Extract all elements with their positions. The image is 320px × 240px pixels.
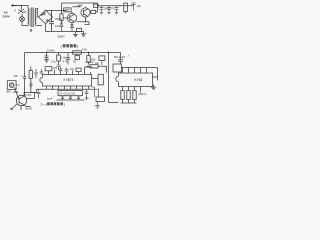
svg-text:10k: 10k (14, 74, 19, 78)
svg-text:3DG8: 3DG8 (25, 106, 32, 110)
wire (85, 66, 93, 68)
svg-text:10μ: 10μ (70, 68, 75, 71)
component box (75, 56, 80, 60)
svg-text:K: K (15, 9, 17, 13)
svg-text:0.47μ: 0.47μ (25, 94, 32, 97)
capacitor C14 (77, 96, 80, 100)
jack X1 (92, 87, 99, 97)
wire (153, 68, 158, 81)
svg-text:0.022μ: 0.022μ (86, 60, 94, 64)
label box C7-C10 (58, 91, 83, 96)
component box (99, 56, 105, 61)
svg-text:0.047μ: 0.047μ (47, 49, 55, 53)
svg-text:+6V: +6V (77, 3, 82, 7)
node (88, 52, 89, 53)
svg-text:220V: 220V (3, 15, 11, 19)
transformer B primary winding (28, 9, 29, 26)
wire bus (37, 88, 93, 90)
wire IC2 top rail (122, 67, 158, 69)
zener diode VD2 (71, 23, 74, 32)
capacitor C10 (65, 68, 69, 72)
wire (36, 25, 42, 27)
svg-text:): ) (64, 102, 65, 106)
label box 3DD (64, 8, 71, 12)
svg-text:BM: BM (7, 89, 11, 93)
wire (121, 100, 137, 104)
component box (113, 64, 122, 72)
ground (44, 60, 49, 62)
svg-text:3A: 3A (23, 11, 26, 14)
resistor R6 (72, 52, 73, 54)
capacitor C20 (29, 82, 32, 89)
pin stubs top U1 (49, 67, 91, 75)
resistor R4 (94, 4, 99, 7)
capacitor C15 10u (85, 89, 89, 100)
transistor V3 (16, 95, 26, 105)
wire emitter (24, 105, 30, 107)
node AC input terminal (11, 4, 13, 6)
svg-text:10μ: 10μ (85, 97, 90, 100)
resistor R9 between ICs (92, 77, 99, 79)
capacitor C4 (115, 6, 119, 15)
wire rail (73, 6, 81, 8)
capacitor C9 (59, 67, 63, 71)
wire (85, 22, 90, 25)
wire filter rail (98, 3, 134, 12)
wire +6V top rail (62, 3, 98, 11)
wire emitter junction (77, 17, 90, 22)
svg-text:3.3μ: 3.3μ (51, 60, 57, 64)
capacitor C3 (107, 6, 111, 15)
resistor R10 (29, 71, 32, 79)
capacitor C17 (34, 69, 37, 79)
capacitor C18 (40, 69, 44, 75)
wire top rail (46, 9, 67, 11)
resistor R7 (88, 53, 90, 56)
wire base (64, 17, 70, 19)
capacitor C6 (46, 52, 47, 53)
component box (76, 68, 81, 71)
svg-text:470: 470 (53, 67, 58, 70)
microphone BM (7, 81, 16, 90)
resistor R3 (77, 28, 82, 31)
svg-text:1—(: 1—( (41, 102, 48, 106)
capacitor C2 (100, 6, 104, 15)
wire (12, 104, 21, 111)
capacitor C5 10u (132, 3, 136, 10)
svg-text:10μ: 10μ (137, 5, 142, 8)
node (108, 52, 109, 53)
wire collector (24, 89, 36, 98)
bridge rectifier D1-D4 (39, 10, 53, 24)
capacitor C8 (118, 53, 123, 65)
transformer B secondary winding (35, 9, 36, 26)
ground (81, 32, 86, 37)
component box C (45, 67, 52, 71)
capacitor C19 (57, 65, 61, 70)
svg-text:KYB2: KYB2 (135, 78, 143, 82)
svg-text:4.7k: 4.7k (63, 60, 69, 64)
svg-text:16V: 16V (55, 24, 60, 28)
resistor R5 (124, 3, 128, 12)
wire bottom rail (46, 24, 84, 32)
capacitor C7 (66, 53, 70, 65)
wire (36, 9, 39, 18)
resistor R13 (133, 91, 136, 100)
wire ground bus (57, 99, 85, 101)
pin stubs top U2 (123, 68, 147, 74)
wire (109, 53, 119, 103)
resistor R2 (89, 11, 92, 13)
capacitor C13 (69, 96, 72, 100)
resistor R12 (127, 91, 130, 100)
wire (13, 6, 29, 9)
capacitor C16 (23, 74, 26, 97)
resistor R11 (121, 91, 124, 100)
svg-text:200×3: 200×3 (139, 92, 147, 96)
resistor R14 1.5k (58, 53, 60, 56)
wire (13, 6, 22, 10)
pin stubs bottom U2 (123, 87, 141, 93)
wire (22, 14, 28, 26)
wire amp top rail (25, 53, 121, 74)
ground (73, 32, 78, 37)
svg-text:10μ: 10μ (95, 62, 100, 65)
svg-text:4.3k: 4.3k (82, 48, 88, 52)
ground (151, 85, 156, 90)
svg-text:1μ×4: 1μ×4 (47, 97, 53, 100)
svg-text:KYB73: KYB73 (64, 78, 74, 82)
capacitor C11 (37, 89, 41, 98)
transistor V1 (67, 13, 76, 22)
capacitor C1 1000u (49, 11, 54, 32)
capacitor C12 (61, 96, 64, 100)
svg-text:C7~C10:0.022: C7~C10:0.022 (59, 93, 76, 96)
transformer core (31, 8, 33, 28)
switch K (18, 9, 24, 14)
resistor R8 (87, 65, 90, 67)
svg-text:8Ω.1×10: 8Ω.1×10 (114, 55, 125, 59)
IC U2 KYB2 (116, 73, 153, 87)
svg-text:1.5k: 1.5k (61, 56, 67, 60)
zener diode VD1 (60, 23, 63, 31)
resistor R1 (61, 11, 63, 14)
IC U1 KYB73 (40, 75, 92, 87)
lamp HL (20, 17, 25, 22)
transistor V2 (81, 8, 90, 17)
pin stubs bottom U1 (47, 86, 89, 89)
svg-text:3DW7: 3DW7 (58, 35, 66, 39)
